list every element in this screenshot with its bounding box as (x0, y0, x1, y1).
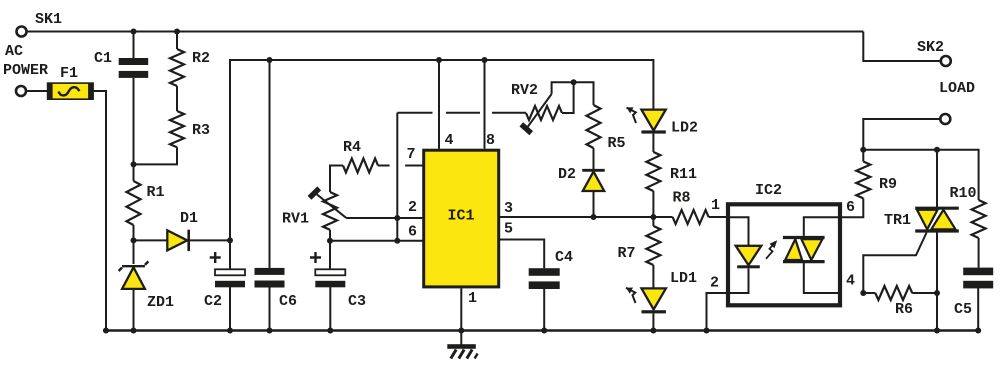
svg-text:C6: C6 (279, 293, 297, 310)
wire R6 leads (863, 292, 937, 294)
ground (447, 344, 477, 358)
wire LD1 bottom lead (652, 313, 654, 330)
node TR1 top (934, 147, 940, 153)
svg-text:C2: C2 (204, 293, 222, 310)
node pin2 rail (704, 328, 710, 334)
svg-text:1: 1 (711, 197, 720, 214)
label C6 (279, 293, 297, 310)
resistor R2 (170, 49, 184, 86)
wire R4 leads (330, 166, 390, 193)
wire pin 7 lead (405, 165, 423, 167)
resistor R10 (972, 200, 986, 238)
svg-text:R8: R8 (673, 190, 691, 207)
wire R7 leads (652, 217, 654, 288)
label IC2 pin 2 (710, 275, 719, 292)
wire LD2-R11 (652, 134, 654, 152)
svg-text:R1: R1 (147, 184, 165, 201)
wire pin 1 (460, 288, 462, 344)
label pin 2 (408, 199, 417, 216)
resistor R7 (646, 226, 660, 265)
trimmer RV1 wiper (310, 188, 347, 217)
trimmer RV2 wiper arm (521, 94, 551, 133)
svg-text:R5: R5 (608, 135, 626, 152)
wire TR1 top (936, 150, 938, 208)
node R11 pin3 (650, 214, 656, 220)
wire IC2 LED anode (726, 217, 749, 246)
wire F1 to bottom rail (93, 91, 106, 331)
label R4 (343, 139, 361, 156)
svg-text:TR1: TR1 (884, 212, 911, 229)
svg-text:LOAD: LOAD (939, 80, 975, 97)
svg-text:5: 5 (504, 221, 513, 238)
wire load line (863, 150, 978, 200)
label ZD1 (147, 294, 174, 311)
svg-text:1: 1 (468, 290, 477, 307)
node pin 2 (394, 215, 400, 221)
wire IC2 pin 2 (707, 293, 727, 331)
svg-text:IC2: IC2 (755, 182, 782, 199)
wire C3 leads (329, 241, 331, 331)
wire R9 top (862, 150, 864, 162)
triac TR1 (915, 208, 959, 231)
wire RV1 bottom (329, 230, 331, 241)
node C1 top (131, 29, 137, 35)
label AC (5, 43, 23, 60)
wire opto triac bottom (804, 262, 842, 293)
svg-text:6: 6 (846, 199, 855, 216)
LED LD1 (642, 288, 666, 313)
zener diode ZD1 (119, 261, 149, 289)
wire ZD1 bottom lead (133, 289, 135, 331)
wire R2-R3 (176, 86, 178, 111)
fuse F1 (48, 83, 94, 99)
wire R2 top lead (176, 32, 178, 50)
node R9 top (860, 147, 866, 153)
label SK1 (35, 11, 62, 28)
svg-text:D2: D2 (558, 166, 576, 183)
label D2 (558, 166, 576, 183)
node C3 rail (327, 328, 333, 334)
label R3 (192, 122, 210, 139)
svg-text:R6: R6 (895, 301, 913, 318)
node pin 6 (394, 238, 400, 244)
svg-text:SK2: SK2 (917, 39, 944, 56)
svg-text:SK1: SK1 (35, 11, 62, 28)
wire pin 2 (346, 217, 423, 219)
label SK2 (917, 39, 944, 56)
node pin1 rail (458, 328, 464, 334)
node RV2 wiper (571, 79, 577, 85)
capacitor C2 (210, 252, 245, 287)
opto LED (736, 246, 762, 268)
label C5 (954, 301, 972, 318)
label pin 1 (468, 290, 477, 307)
label pin 6 (408, 224, 417, 241)
resistor R6 (875, 286, 912, 300)
capacitor C3 (310, 252, 345, 287)
label R1 (147, 184, 165, 201)
label R2 (192, 50, 210, 67)
svg-text:LD1: LD1 (670, 270, 697, 287)
wire IC2 pin 6 (842, 198, 863, 217)
node ZD1 rail (131, 328, 137, 334)
resistor R11 (646, 152, 660, 191)
resistor R8 (673, 210, 709, 224)
LED LD2 arrow (627, 107, 637, 123)
label IC2 pin 4 (846, 273, 855, 290)
wire bottom rail (103, 329, 978, 332)
svg-text:R7: R7 (618, 245, 636, 262)
wire D1 cathode lead (189, 239, 230, 241)
label RV2 (511, 82, 538, 99)
opto arrow (766, 240, 777, 259)
label IC2 pin 1 (711, 197, 720, 214)
wire opto triac top (804, 217, 842, 236)
svg-text:3: 3 (504, 200, 513, 217)
node D2 pin3 (591, 214, 597, 220)
label RV1 (282, 211, 309, 228)
svg-text:R11: R11 (670, 166, 697, 183)
wire C1 top lead (133, 32, 135, 59)
label D1 (180, 210, 198, 227)
diode D1 (167, 230, 188, 251)
svg-text:F1: F1 (60, 65, 78, 82)
wire D1 anode lead (134, 239, 168, 241)
svg-text:R3: R3 (192, 122, 210, 139)
svg-text:RV1: RV1 (282, 211, 309, 228)
node D1 anode (131, 237, 137, 243)
wire C2 leads (229, 240, 231, 330)
wire RV2 right (562, 82, 574, 113)
wire pin 4 (438, 60, 440, 149)
svg-text:POWER: POWER (3, 62, 48, 79)
wire RV2 wiper link (552, 82, 574, 94)
wire C4 bottom lead (543, 289, 545, 331)
label IC2 pin 6 (846, 199, 855, 216)
wire R10-C5 (978, 238, 980, 268)
trimmer RV1 (323, 192, 337, 230)
svg-text:C3: C3 (348, 293, 366, 310)
node C6 rail (267, 328, 273, 334)
node R6 TR1 (934, 290, 940, 296)
svg-text:IC1: IC1 (448, 208, 475, 225)
node pin8 top (482, 57, 488, 63)
label R10 (950, 185, 977, 202)
svg-text:C1: C1 (94, 50, 112, 67)
svg-text:C5: C5 (954, 301, 972, 318)
label R9 (879, 176, 897, 193)
trimmer RV2 (526, 106, 562, 120)
wire D2 anode lead (593, 191, 595, 217)
capacitor C1 (119, 58, 149, 78)
node TR1 rail (934, 328, 940, 334)
wire SK2 drop (863, 32, 941, 62)
wire vcc rail2 (230, 60, 653, 240)
terminal LOAD (940, 114, 950, 124)
opto-isolator IC2 (728, 204, 840, 305)
LED LD2 (641, 110, 665, 134)
svg-text:R4: R4 (343, 139, 361, 156)
label C3 (348, 293, 366, 310)
node RV1 bottom (327, 238, 333, 244)
wire pin 5 (500, 240, 544, 269)
capacitor C6 (255, 268, 285, 288)
wire C5 bottom lead (977, 288, 979, 331)
capacitor C4 (529, 268, 560, 289)
resistor R3 (170, 111, 184, 147)
svg-text:8: 8 (486, 132, 495, 149)
node D1 cathode (227, 237, 233, 243)
label TR1 (884, 212, 911, 229)
terminal SK2 (941, 56, 951, 66)
label LD2 (671, 120, 698, 137)
wire R5-D2 (593, 148, 595, 170)
timer IC1 (424, 150, 499, 287)
wire RV2 to R5 (574, 82, 594, 105)
opto triac (783, 238, 825, 262)
label LOAD (939, 80, 975, 97)
wire R1 leads (133, 164, 135, 240)
resistor R9 (856, 162, 870, 199)
wire threshold net (397, 113, 526, 241)
terminal SK1 (17, 27, 27, 37)
svg-text:7: 7 (407, 146, 416, 163)
svg-text:2: 2 (710, 275, 719, 292)
wire load terminal (863, 119, 940, 150)
node C4 rail (541, 328, 547, 334)
diode D2 (582, 170, 604, 191)
label R11 (670, 166, 697, 183)
wire ZD1 top lead (133, 240, 135, 264)
svg-text:RV2: RV2 (511, 82, 538, 99)
label pin 8 (486, 132, 495, 149)
wire top rail (27, 31, 863, 33)
node R1 top (131, 161, 137, 167)
wire TR1 gate (863, 233, 926, 294)
label pin 3 (504, 200, 513, 217)
wire C6 leads (269, 60, 271, 331)
label IC2 (755, 182, 782, 199)
wire R3 bottom (134, 147, 178, 164)
label R5 (608, 135, 626, 152)
node gate R6 (860, 290, 866, 296)
LED LD1 arrow (626, 288, 636, 304)
node C2 rail (227, 328, 233, 334)
wire pin 3 (500, 216, 673, 218)
label R7 (618, 245, 636, 262)
node LD1 rail (650, 328, 656, 334)
label IC1 (448, 208, 475, 225)
label LD1 (670, 270, 697, 287)
resistor R5 (587, 105, 601, 148)
svg-text:LD2: LD2 (671, 120, 698, 137)
resistor R4 (343, 159, 378, 173)
label F1 (60, 65, 78, 82)
label pin 4 (445, 132, 454, 149)
svg-text:2: 2 (408, 199, 417, 216)
wire IC2 LED cathode (726, 268, 749, 293)
node pin4 top (436, 57, 442, 63)
svg-text:4: 4 (846, 273, 855, 290)
label POWER (3, 62, 48, 79)
node C6 top (267, 57, 273, 63)
label C1 (94, 50, 112, 67)
terminal F1 input (16, 86, 26, 96)
svg-text:R10: R10 (950, 185, 977, 202)
capacitor C5 (963, 268, 993, 289)
node C5 rail (975, 328, 981, 334)
svg-text:R2: R2 (192, 50, 210, 67)
svg-text:D1: D1 (180, 210, 198, 227)
label C2 (204, 293, 222, 310)
svg-text:ZD1: ZD1 (147, 294, 174, 311)
label pin 5 (504, 221, 513, 238)
label R6 (895, 301, 913, 318)
svg-text:AC: AC (5, 43, 23, 60)
label R8 (673, 190, 691, 207)
svg-text:R9: R9 (879, 176, 897, 193)
label pin 7 (407, 146, 416, 163)
wire F1 left (27, 90, 49, 92)
svg-text:6: 6 (408, 224, 417, 241)
wire R8 right (709, 216, 726, 218)
label C4 (555, 249, 573, 266)
svg-text:C4: C4 (555, 249, 573, 266)
wire R11 bottom (652, 191, 654, 217)
wire TR1 bottom (936, 233, 938, 331)
node R2 top (174, 29, 180, 35)
wire pin 6 (330, 240, 423, 242)
svg-text:4: 4 (445, 132, 454, 149)
wire pin 8 (484, 60, 486, 149)
resistor R1 (127, 181, 141, 225)
wire C1 bottom lead (133, 78, 135, 164)
node F1 rail (103, 328, 109, 334)
